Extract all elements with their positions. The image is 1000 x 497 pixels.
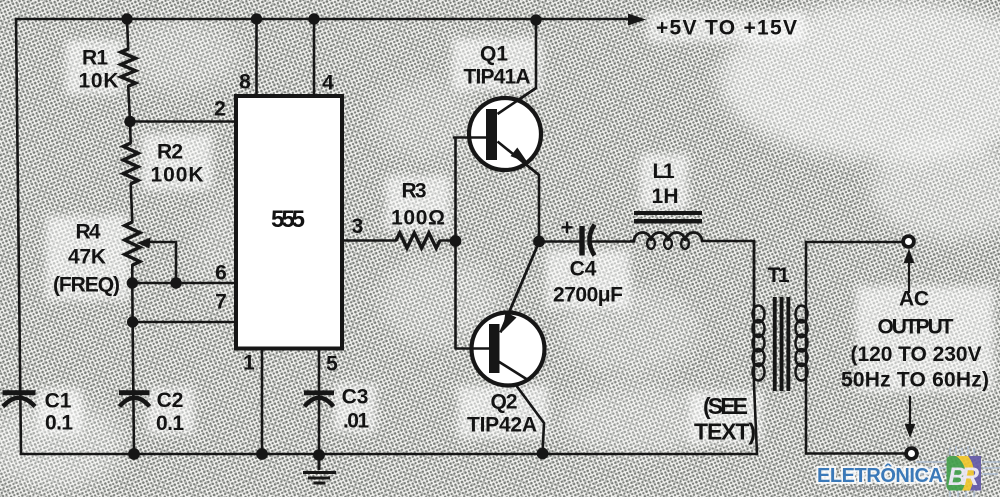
svg-text:TIP41A: TIP41A bbox=[464, 66, 531, 89]
wire: pin 4 vertical bbox=[313, 19, 316, 96]
wire: C4 to L1 bbox=[593, 240, 635, 243]
junction C2 ground rail bbox=[128, 448, 140, 460]
wire: output node to C4 bbox=[539, 240, 579, 243]
svg-text:(120 TO 230V: (120 TO 230V bbox=[851, 343, 982, 366]
op-amp/timer IC U1 555 bbox=[236, 96, 342, 349]
wire: Q1 base vertical bbox=[454, 138, 488, 242]
junction R1 top rail bbox=[121, 13, 132, 24]
svg-text:R2: R2 bbox=[157, 141, 183, 164]
svg-text:3: 3 bbox=[352, 215, 364, 238]
capacitor C3 .01 bbox=[304, 390, 334, 406]
wire: pin 6 bbox=[132, 282, 236, 285]
svg-text:10K: 10K bbox=[79, 70, 119, 93]
wire: R1 column top lead bbox=[127, 19, 128, 49]
svg-text:8: 8 bbox=[239, 71, 251, 94]
R4 wiper arrowhead bbox=[137, 238, 151, 249]
svg-text:www.eletronicabr.com: www.eletronicabr.com bbox=[841, 483, 915, 492]
watermark: circuit traces bbox=[916, 446, 1000, 497]
svg-text:C4: C4 bbox=[570, 258, 597, 281]
svg-text:C1: C1 bbox=[45, 390, 72, 413]
svg-text:5: 5 bbox=[326, 353, 338, 376]
svg-text:47K: 47K bbox=[68, 246, 106, 269]
wire: T1 secondary vertical bbox=[805, 242, 808, 454]
svg-text:100K: 100K bbox=[151, 164, 204, 187]
wire: pin 7 bbox=[133, 321, 236, 324]
svg-text:4: 4 bbox=[322, 72, 334, 95]
wire: L1 to T1 primary bbox=[702, 241, 754, 297]
svg-text:L1: L1 bbox=[653, 160, 675, 183]
wire: secondary bottom to terminal bbox=[806, 452, 905, 455]
wire: Q2 emitter from output node bbox=[501, 242, 540, 333]
junction Q2 collector ground rail bbox=[537, 448, 549, 460]
watermark: BR badge bbox=[947, 456, 982, 491]
svg-text:Q1: Q1 bbox=[480, 43, 508, 66]
transistor Q2 TIP42A bbox=[472, 242, 545, 386]
arrow down to bottom terminal bbox=[905, 396, 916, 438]
svg-text:R3: R3 bbox=[402, 180, 427, 203]
transformer T1 bbox=[753, 297, 808, 391]
wire: left vertical rail bbox=[16, 19, 21, 454]
capacitor C2 0.1 bbox=[119, 390, 150, 406]
transistor Q1 TIP41A bbox=[469, 88, 541, 175]
svg-text:0.1: 0.1 bbox=[156, 412, 184, 435]
svg-text:(SEE: (SEE bbox=[703, 393, 748, 419]
svg-text:Q2: Q2 bbox=[491, 391, 518, 414]
T1 primary winding bbox=[753, 306, 765, 381]
wire: pin 5 / C3 vertical bbox=[318, 349, 321, 456]
svg-text:T1: T1 bbox=[768, 264, 790, 287]
svg-text:+: + bbox=[561, 215, 574, 240]
junction wiper pin6 node bbox=[170, 277, 181, 288]
wire: T1 primary vertical bbox=[754, 241, 757, 454]
resistor R2 100K bbox=[123, 143, 138, 184]
junction R1/R2/pin2 node bbox=[124, 116, 135, 127]
wire: Q1 emitter to output node bbox=[498, 142, 540, 242]
junction R3 output to bases node bbox=[450, 235, 462, 247]
inductor L1 1H bbox=[630, 211, 702, 249]
wire: R1-R2 lead bbox=[128, 86, 131, 143]
resistor R3 100ohm bbox=[396, 233, 440, 248]
svg-text:AC: AC bbox=[899, 288, 929, 311]
svg-text:50Hz TO 60Hz): 50Hz TO 60Hz) bbox=[841, 369, 989, 392]
junction C3/ground ground rail bbox=[313, 449, 325, 461]
wire: Q1 collector bbox=[498, 20, 537, 114]
svg-text:C3: C3 bbox=[342, 386, 369, 409]
svg-text:7: 7 bbox=[215, 291, 227, 314]
junction pin8 top rail bbox=[251, 13, 262, 24]
svg-text:R1: R1 bbox=[82, 47, 108, 70]
svg-text:0.1: 0.1 bbox=[45, 412, 73, 435]
svg-text:TIP42A: TIP42A bbox=[467, 414, 537, 437]
junction emitters output node bbox=[533, 236, 545, 248]
svg-text:555: 555 bbox=[271, 206, 305, 233]
svg-text:.01: .01 bbox=[343, 410, 369, 433]
svg-text:6: 6 bbox=[215, 262, 227, 285]
svg-text:+5V TO +15V: +5V TO +15V bbox=[656, 17, 797, 40]
junction pin7 node bbox=[127, 316, 138, 327]
wire: Q2 collector to ground rail bbox=[499, 362, 545, 454]
svg-text:100Ω: 100Ω bbox=[391, 207, 445, 230]
potentiometer R4 47K bbox=[125, 222, 140, 265]
svg-text:R4: R4 bbox=[76, 221, 101, 244]
svg-text:1H: 1H bbox=[652, 185, 679, 208]
capacitor C1 0.1 bbox=[3, 390, 36, 406]
svg-text:C2: C2 bbox=[157, 389, 184, 412]
arrow up to top terminal bbox=[904, 249, 915, 293]
svg-text:BR: BR bbox=[948, 463, 979, 491]
wire: top supply rail bbox=[16, 18, 628, 21]
wire: R4 to pin7 and C2 column bbox=[132, 265, 134, 454]
svg-text:1: 1 bbox=[243, 352, 255, 375]
svg-text:(FREQ): (FREQ) bbox=[53, 274, 120, 297]
resistor R1 10K bbox=[121, 49, 136, 86]
svg-text:2: 2 bbox=[214, 98, 226, 121]
junction Q1 collector top rail bbox=[530, 14, 541, 25]
wire: pin 3 output bbox=[342, 239, 456, 242]
wire: Q2 base vertical bbox=[456, 241, 492, 349]
svg-text:2700μF: 2700μF bbox=[553, 284, 623, 307]
wire: R2-R4 lead bbox=[131, 184, 133, 222]
wire: R4 wiper bbox=[148, 242, 176, 283]
AC output terminal top bbox=[903, 236, 914, 247]
capacitor C4 2700uF polarized bbox=[579, 225, 594, 256]
ground symbol bbox=[303, 455, 336, 483]
svg-text:OUTPUT: OUTPUT bbox=[878, 316, 954, 339]
wire: pin 8 vertical bbox=[255, 19, 258, 96]
T1 secondary winding bbox=[796, 306, 808, 381]
supply arrowhead bbox=[628, 14, 646, 26]
junction R4 bottom pin6 node bbox=[127, 277, 138, 288]
wire: bottom ground rail bbox=[21, 453, 757, 456]
wire: pin 1 vertical bbox=[261, 349, 264, 455]
AC output terminal bottom bbox=[906, 448, 917, 459]
svg-text:TEXT): TEXT) bbox=[694, 419, 756, 445]
watermark: ELETRONICA text bbox=[817, 463, 943, 487]
junction pin4 top rail bbox=[308, 13, 319, 24]
wire: pin 2 bbox=[130, 120, 236, 123]
wire: secondary top to terminal bbox=[806, 241, 902, 244]
junction pin1 ground rail bbox=[256, 448, 268, 460]
